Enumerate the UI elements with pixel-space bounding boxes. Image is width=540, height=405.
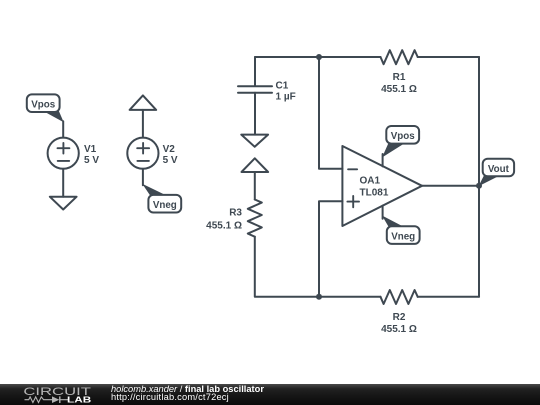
wire R3 bottom lead to bottom-left corner — [255, 237, 319, 297]
wire non-inverting input from bottom junction — [319, 201, 342, 297]
svg-text:V2: V2 — [163, 144, 176, 155]
junction top node — [316, 54, 322, 60]
flag Vneg at op-amp — [382, 216, 420, 244]
svg-text:1 µF: 1 µF — [276, 91, 296, 102]
flag Vpos at V1 — [27, 94, 64, 122]
wire right rail upper (corner down to output node) — [478, 57, 480, 186]
svg-text:455.1 Ω: 455.1 Ω — [206, 221, 242, 232]
ground below C1 — [241, 135, 268, 147]
svg-text:C1: C1 — [276, 80, 289, 91]
wire from arrow to R3 top — [254, 172, 256, 200]
svg-text:Vout: Vout — [488, 164, 510, 175]
voltage source V2 — [127, 110, 178, 185]
junction bottom node — [316, 294, 322, 300]
wire top from junction to R1 left lead — [319, 56, 381, 58]
wire right rail lower (output node down to bottom corner) — [478, 186, 480, 297]
svg-text:R1: R1 — [393, 72, 406, 83]
footer text line 2 — [111, 392, 229, 402]
svg-text:455.1 Ω: 455.1 Ω — [381, 84, 417, 95]
wire from R1 right lead to top-right corner — [418, 56, 479, 58]
resistor R1 — [381, 50, 418, 95]
op-amp OA1 — [342, 146, 422, 226]
wire top-left from C1 top corner to junction — [255, 56, 319, 58]
capacitor C1 — [238, 80, 296, 102]
wire bottom from junction to R2 left lead — [319, 296, 381, 298]
svg-text:LAB: LAB — [67, 395, 91, 404]
op-amp positive power stub — [382, 154, 384, 166]
svg-text:V1: V1 — [84, 144, 97, 155]
wire output — [422, 185, 479, 187]
node arrow above V2 — [130, 95, 157, 110]
svg-text:Vneg: Vneg — [391, 232, 415, 243]
svg-text:Vpos: Vpos — [31, 100, 56, 111]
svg-text:5 V: 5 V — [163, 155, 178, 166]
CircuitLab logo — [0, 384, 110, 405]
wire C1 bottom lead — [254, 93, 256, 135]
svg-text:Vneg: Vneg — [153, 200, 177, 211]
flag Vout — [479, 159, 515, 187]
flag Vpos at op-amp — [382, 126, 419, 158]
flag Vneg at V2 — [142, 184, 181, 213]
junction output node — [476, 183, 482, 189]
ground below V1 — [50, 197, 77, 210]
svg-text:OA1: OA1 — [360, 175, 381, 186]
wire inverting input from top junction — [319, 57, 342, 169]
svg-text:R3: R3 — [229, 208, 242, 219]
svg-text:Vpos: Vpos — [391, 131, 416, 142]
svg-text:5 V: 5 V — [84, 155, 99, 166]
voltage source V1 — [48, 121, 100, 196]
resistor R3 — [206, 200, 262, 237]
wire from R2 right lead to bottom-right corner — [418, 296, 479, 298]
footer bar — [0, 384, 540, 405]
op-amp negative power stub — [382, 206, 384, 219]
resistor R2 — [381, 290, 418, 335]
svg-text:R2: R2 — [393, 312, 406, 323]
svg-text:455.1 Ω: 455.1 Ω — [381, 324, 417, 335]
node arrow above R3 — [242, 158, 269, 172]
wire C1 top lead — [254, 57, 256, 86]
footer text line 1 — [111, 384, 264, 394]
svg-text:TL081: TL081 — [360, 188, 389, 199]
